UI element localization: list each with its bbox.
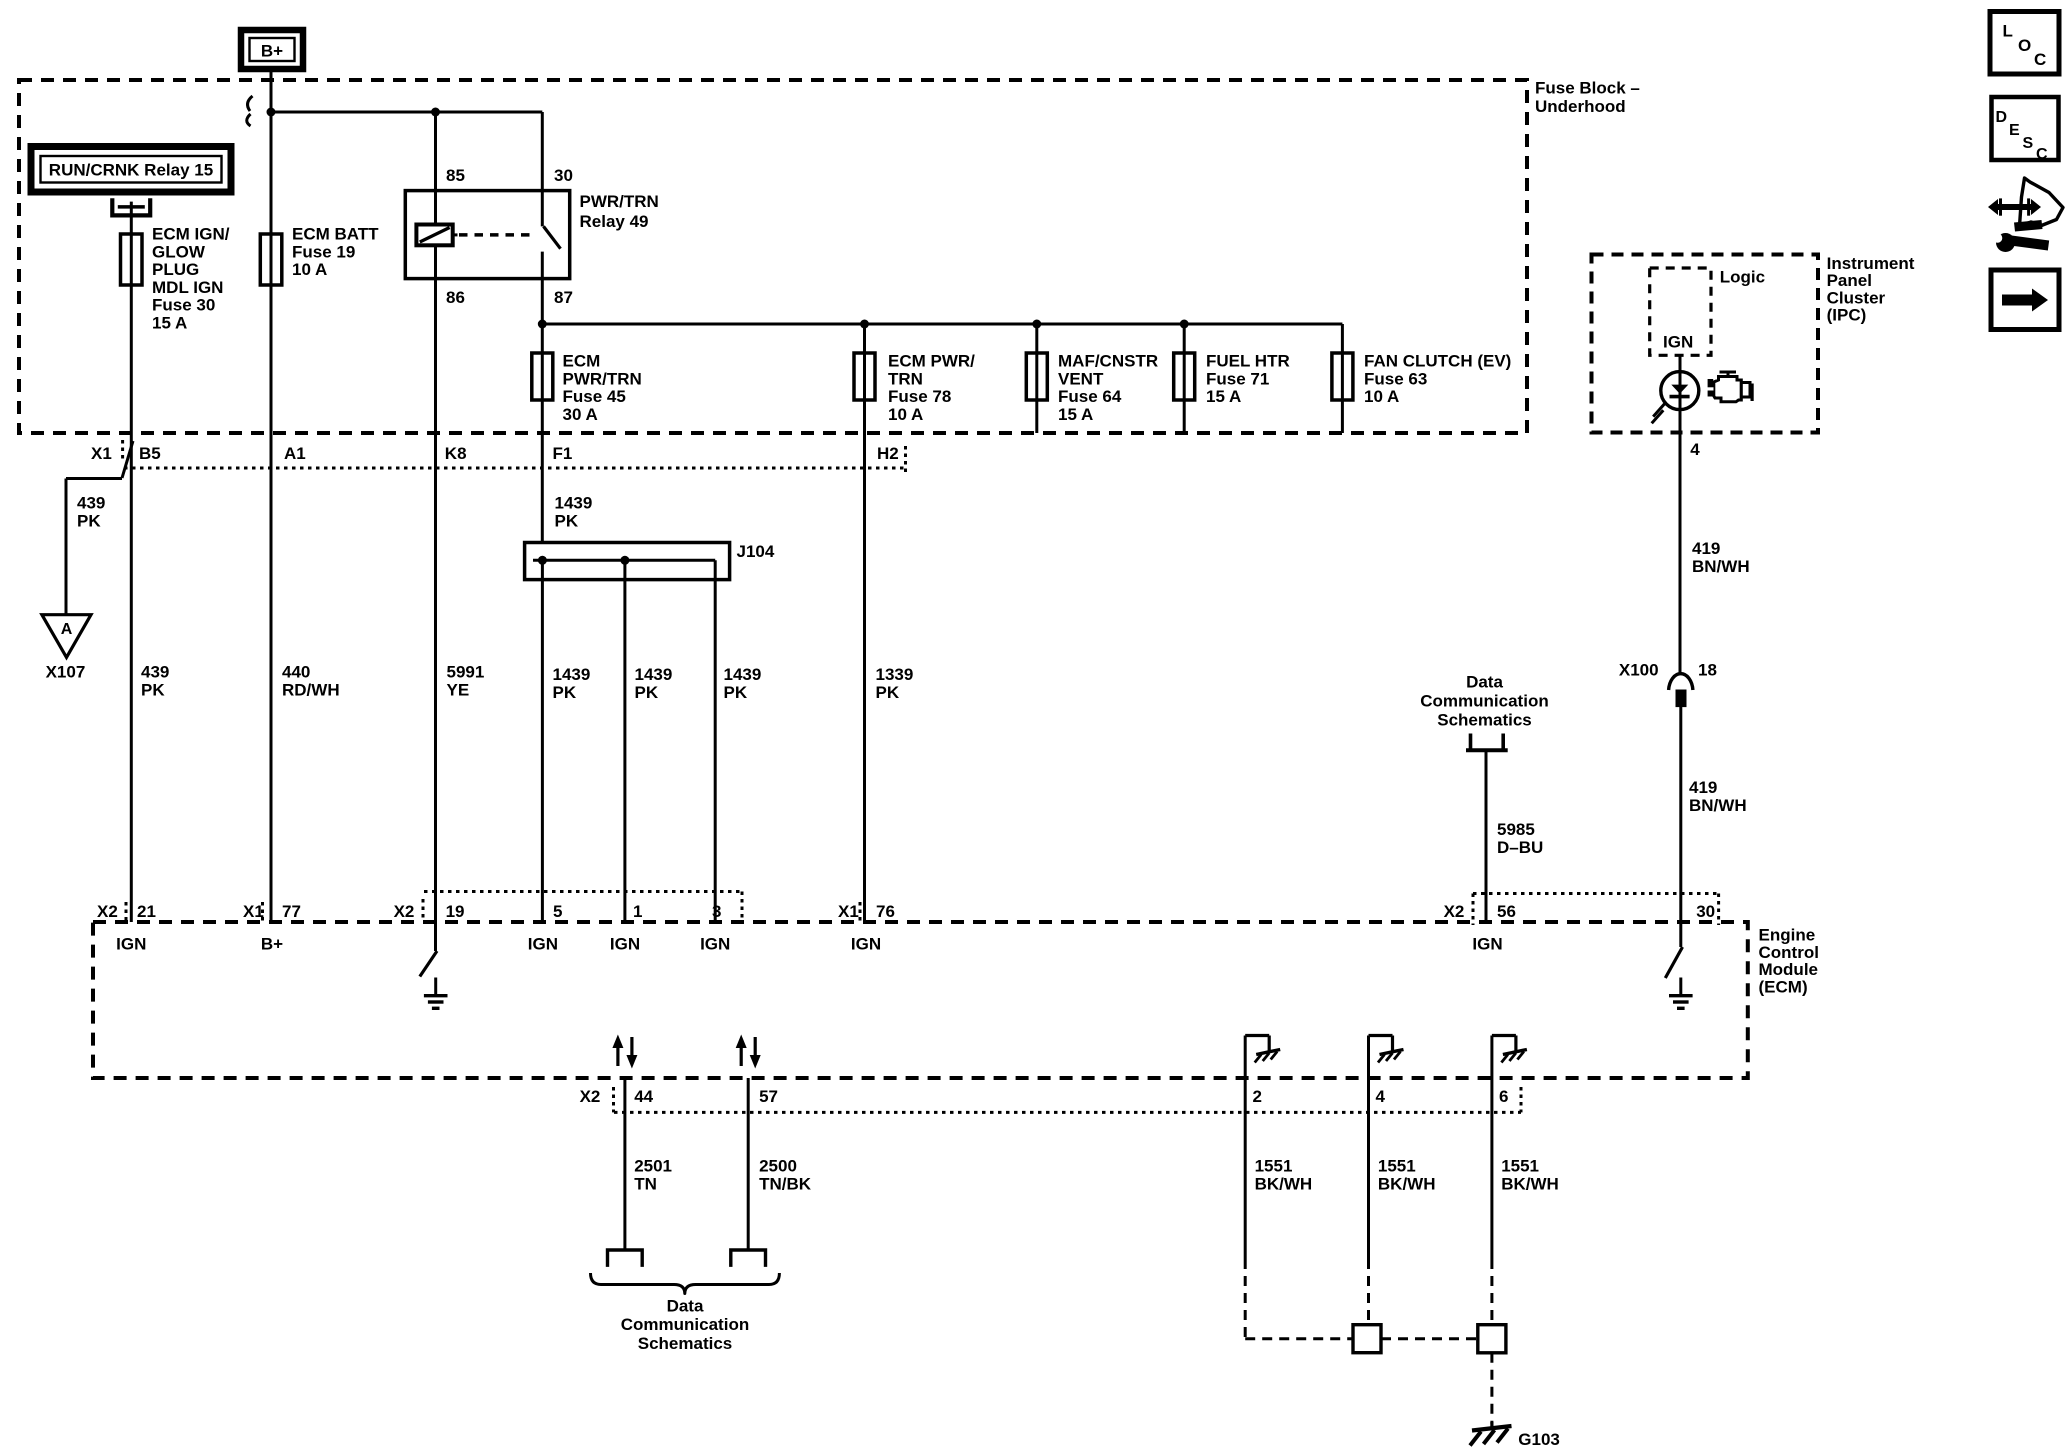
- tick after pin3: [741, 892, 744, 925]
- svg-text:IGN: IGN: [610, 935, 640, 954]
- svg-text:D–BU: D–BU: [1497, 838, 1543, 857]
- svg-text:BK/WH: BK/WH: [1501, 1174, 1559, 1193]
- svg-text:MDL IGN: MDL IGN: [152, 278, 223, 297]
- terminator cap at wire 2501: [608, 1250, 643, 1267]
- svg-text:5: 5: [553, 902, 562, 921]
- wire 1439 PK fuse45 to J104: [541, 324, 544, 543]
- svg-text:Fuse 71: Fuse 71: [1206, 369, 1269, 388]
- svg-text:PK: PK: [555, 511, 579, 530]
- svg-text:Fuse 78: Fuse 78: [888, 387, 951, 406]
- wire branch to X107: diagonal: [122, 441, 133, 478]
- wire ECM pin57 / 2500 TN_BK: [747, 1078, 750, 1250]
- wire fuse63 drop: [1341, 324, 1344, 433]
- LED diode triangle: [1671, 385, 1688, 394]
- dashed wire splice S2 to G103: [1490, 1353, 1493, 1424]
- tick after pin30: [1717, 894, 1720, 926]
- fuse 64 MAF/CNSTR VENT: [1026, 353, 1047, 400]
- svg-text:BK/WH: BK/WH: [1255, 1174, 1313, 1193]
- svg-text:1439: 1439: [724, 665, 762, 684]
- svg-text:10 A: 10 A: [1364, 387, 1399, 406]
- svg-text:Instrument: Instrument: [1827, 254, 1915, 273]
- svg-text:1439: 1439: [635, 665, 673, 684]
- svg-text:Fuse 64: Fuse 64: [1058, 387, 1122, 406]
- svg-text:B+: B+: [261, 935, 283, 954]
- svg-text:TN: TN: [634, 1174, 657, 1193]
- svg-text:87: 87: [554, 288, 573, 307]
- junction dot coil drop: [431, 108, 440, 117]
- svg-text:VENT: VENT: [1058, 369, 1104, 388]
- tick at X2 44: [612, 1087, 615, 1112]
- svg-text:FAN CLUTCH (EV): FAN CLUTCH (EV): [1364, 352, 1511, 371]
- svg-text:Logic: Logic: [1720, 268, 1765, 287]
- svg-text:85: 85: [446, 166, 465, 185]
- svg-text:MAF/CNSTR: MAF/CNSTR: [1058, 352, 1158, 371]
- svg-text:77: 77: [282, 902, 301, 921]
- svg-text:Fuse 63: Fuse 63: [1364, 369, 1427, 388]
- svg-text:6: 6: [1499, 1087, 1508, 1106]
- wire 5985 D-BU: [1485, 750, 1488, 922]
- svg-text:X2: X2: [97, 902, 118, 921]
- wire J104 out pin5: [541, 560, 544, 922]
- svg-text:44: 44: [634, 1087, 653, 1106]
- instrument panel cluster IPC dashed box: [1592, 255, 1819, 433]
- tick at X2 19: [422, 899, 425, 919]
- chassis ground hook at ECM pin 2: [1245, 1034, 1269, 1037]
- svg-text:BN/WH: BN/WH: [1692, 557, 1750, 576]
- svg-text:1551: 1551: [1378, 1157, 1416, 1176]
- relay 49 switch blade: [544, 226, 561, 248]
- svg-text:F1: F1: [553, 444, 573, 463]
- svg-text:1551: 1551: [1501, 1157, 1539, 1176]
- ECM pin19 switch blade to ground: [420, 951, 437, 977]
- svg-text:Control: Control: [1759, 943, 1819, 962]
- svg-text:Schematics: Schematics: [638, 1334, 733, 1353]
- bidirectional data arrows at ECM pin 57: [740, 1046, 743, 1066]
- svg-text:86: 86: [446, 288, 465, 307]
- svg-text:76: 76: [876, 902, 895, 921]
- check engine icon: [1720, 371, 1737, 374]
- svg-text:YE: YE: [447, 680, 470, 699]
- wire branch to X107: vertical: [65, 479, 68, 615]
- svg-text:Relay 49: Relay 49: [580, 212, 649, 231]
- svg-text:E: E: [2009, 122, 2020, 139]
- svg-text:BN/WH: BN/WH: [1689, 796, 1747, 815]
- splice S2: [1478, 1325, 1506, 1353]
- tick at X1 76: [859, 902, 862, 921]
- svg-text:PK: PK: [635, 683, 659, 702]
- svg-text:21: 21: [137, 902, 156, 921]
- forward arrow icon box: [1991, 270, 2059, 330]
- ECM bottom connector dotted row: [614, 1111, 1521, 1114]
- connector X1 dotted row fuse block: [124, 467, 905, 470]
- svg-text:Data: Data: [667, 1297, 704, 1316]
- fuse 78 ECM PWR/TRN: [854, 353, 875, 400]
- svg-text:A: A: [61, 621, 73, 638]
- svg-text:X2: X2: [1444, 902, 1465, 921]
- tick after pin6: [1520, 1087, 1523, 1112]
- RUN/CRNK relay output bracket symbol: [112, 198, 150, 215]
- wire ECM pin2 / 1551 BK_WH solid part: [1244, 1036, 1247, 1260]
- B+ tap curl symbol: [248, 96, 253, 111]
- relay 49 actuator dashed link: [459, 233, 536, 237]
- fuse 19 ECM BATT: [260, 234, 282, 285]
- svg-text:X2: X2: [580, 1087, 601, 1106]
- fuse 30 ECM IGN GLOW PLUG MDL IGN: [121, 234, 143, 285]
- svg-text:C: C: [2034, 50, 2046, 69]
- svg-text:ECM PWR/: ECM PWR/: [888, 352, 975, 371]
- junction dot fuse71: [1180, 320, 1189, 329]
- svg-text:4: 4: [1690, 440, 1700, 459]
- svg-text:1: 1: [633, 902, 642, 921]
- svg-text:1439: 1439: [555, 494, 593, 513]
- schematic navigation hand icon: [2020, 178, 2064, 226]
- wire fuse71 drop: [1183, 324, 1186, 433]
- svg-text:Cluster: Cluster: [1827, 288, 1886, 307]
- wire RUN CRNK fuse30 / 439 PK: [130, 202, 133, 922]
- svg-text:18: 18: [1698, 661, 1717, 680]
- wire J104 out pin3: [714, 560, 717, 922]
- svg-text:TRN: TRN: [888, 369, 923, 388]
- engine control module ECM dashed box: [93, 922, 1748, 1078]
- wire pin30 into relay: [541, 112, 544, 226]
- svg-text:PK: PK: [876, 683, 900, 702]
- svg-text:X107: X107: [46, 663, 86, 682]
- svg-text:Data: Data: [1466, 673, 1503, 692]
- svg-text:PK: PK: [724, 683, 748, 702]
- tick at X2 21: [125, 902, 128, 921]
- chassis ground hook at ECM pin 6: [1492, 1034, 1516, 1037]
- svg-text:Fuse Block –: Fuse Block –: [1535, 79, 1640, 98]
- svg-text:J104: J104: [737, 542, 775, 561]
- svg-text:2: 2: [1253, 1087, 1262, 1106]
- wire relay coil pin85 drop: [434, 112, 437, 225]
- svg-text:X1: X1: [91, 444, 112, 463]
- wire ECM pin6 / 1551 BK_WH solid part: [1490, 1036, 1493, 1260]
- dashed wire pin2 down: [1244, 1259, 1247, 1339]
- svg-text:O: O: [2018, 36, 2031, 55]
- svg-text:30: 30: [1696, 902, 1715, 921]
- IPC IGN indicator LED circle: [1661, 372, 1699, 410]
- svg-text:419: 419: [1692, 539, 1720, 558]
- svg-text:5991: 5991: [447, 663, 485, 682]
- fuse 71 FUEL HTR: [1174, 353, 1195, 400]
- svg-text:2500: 2500: [759, 1157, 797, 1176]
- wire 419 BN_WH X100 to ECM pin30: [1679, 707, 1682, 947]
- svg-text:IGN: IGN: [528, 935, 558, 954]
- svg-text:IGN: IGN: [116, 935, 146, 954]
- svg-text:IGN: IGN: [700, 935, 730, 954]
- svg-text:A1: A1: [284, 444, 306, 463]
- svg-text:15 A: 15 A: [1206, 387, 1241, 406]
- svg-text:Communication: Communication: [621, 1315, 749, 1334]
- DESC icon box: [1992, 97, 2059, 160]
- svg-text:H2: H2: [877, 444, 899, 463]
- svg-text:419: 419: [1689, 778, 1717, 797]
- logic block dashed box: [1650, 268, 1711, 355]
- svg-text:ECM: ECM: [563, 352, 601, 371]
- svg-text:3: 3: [712, 902, 721, 921]
- junction dot J104 pin1: [620, 556, 629, 565]
- fuse block underhood dashed box: [19, 80, 1527, 433]
- wire 5991 YE pin86 to ECM pin19: [434, 245, 437, 951]
- svg-text:IGN: IGN: [851, 935, 881, 954]
- junction dot fuse64: [1032, 320, 1041, 329]
- svg-text:PK: PK: [77, 511, 101, 530]
- svg-text:PLUG: PLUG: [152, 260, 199, 279]
- svg-text:ECM BATT: ECM BATT: [292, 225, 379, 244]
- svg-text:IGN: IGN: [1663, 333, 1693, 352]
- connector X1 tick at B5: [121, 440, 124, 462]
- svg-text:1339: 1339: [876, 665, 914, 684]
- wire B+ vertical / 440 RD_WH: [270, 69, 273, 922]
- svg-text:30 A: 30 A: [563, 405, 598, 424]
- svg-text:S: S: [2023, 135, 2034, 152]
- svg-text:G103: G103: [1518, 1430, 1560, 1449]
- wire ECM pin4 / 1551 BK_WH solid part: [1367, 1036, 1370, 1260]
- svg-text:10 A: 10 A: [292, 260, 327, 279]
- dashed wire pin2 to splice S1: [1245, 1337, 1353, 1340]
- svg-text:Panel: Panel: [1827, 271, 1872, 290]
- svg-text:TN/BK: TN/BK: [759, 1174, 812, 1193]
- svg-text:X1: X1: [243, 902, 264, 921]
- svg-text:57: 57: [759, 1087, 778, 1106]
- svg-text:X100: X100: [1619, 661, 1659, 680]
- svg-text:Fuse 30: Fuse 30: [152, 296, 215, 315]
- splice pack J104: [525, 543, 730, 580]
- svg-text:PWR/TRN: PWR/TRN: [563, 369, 642, 388]
- svg-text:15 A: 15 A: [152, 314, 187, 333]
- svg-text:30: 30: [554, 166, 573, 185]
- svg-text:K8: K8: [445, 444, 467, 463]
- svg-text:B+: B+: [261, 42, 283, 61]
- svg-text:439: 439: [77, 494, 105, 513]
- wire J104 out pin1: [623, 560, 626, 922]
- fuse 63 FAN CLUTCH: [1332, 353, 1353, 400]
- svg-text:1551: 1551: [1255, 1157, 1293, 1176]
- svg-text:440: 440: [282, 663, 310, 682]
- svg-text:ECM IGN/: ECM IGN/: [152, 225, 230, 244]
- svg-text:FUEL HTR: FUEL HTR: [1206, 352, 1290, 371]
- svg-text:B5: B5: [139, 444, 161, 463]
- ground symbol at pin30: [1679, 978, 1682, 996]
- svg-text:4: 4: [1376, 1087, 1386, 1106]
- svg-text:PWR/TRN: PWR/TRN: [580, 192, 659, 211]
- junction dot fuse78: [860, 320, 869, 329]
- LED cathode bar: [1670, 395, 1690, 399]
- junction dot pin87 bus: [538, 320, 547, 329]
- wire 1339 PK fuse78 to ECM pin76: [863, 324, 866, 922]
- ECM top connector dotted row right segment: [1473, 892, 1719, 895]
- fuse feed bus horizontal: [542, 323, 1342, 326]
- B+ power label box: [241, 30, 303, 69]
- junction dot J104 in: [538, 556, 547, 565]
- inline connector X100 pin18: [1669, 674, 1693, 690]
- svg-text:56: 56: [1497, 902, 1516, 921]
- svg-text:L: L: [2003, 22, 2013, 41]
- svg-text:Underhood: Underhood: [1535, 97, 1626, 116]
- fuse 45 ECM PWR/TRN: [532, 353, 553, 400]
- svg-text:Schematics: Schematics: [1437, 710, 1532, 729]
- data link bracket above 5985 wire: [1471, 734, 1504, 749]
- svg-text:X1: X1: [838, 902, 859, 921]
- svg-text:1439: 1439: [553, 665, 591, 684]
- svg-text:Communication: Communication: [1420, 691, 1548, 710]
- PWR/TRN Relay 49 box: [405, 191, 569, 279]
- svg-text:RUN/CRNK Relay 15: RUN/CRNK Relay 15: [49, 161, 213, 180]
- LOC icon box: [1990, 12, 2059, 75]
- svg-text:(IPC): (IPC): [1827, 306, 1867, 325]
- ECM top connector dotted row left segment: [424, 890, 742, 893]
- relay 49 coil: [416, 225, 452, 246]
- svg-text:IGN: IGN: [1472, 935, 1502, 954]
- LED slashes: [1653, 404, 1665, 417]
- bidirectional data arrows at ECM pin 44: [616, 1046, 619, 1066]
- RUN/CRNK Relay 15 label box: [31, 147, 231, 193]
- ground symbol at pin19: [434, 978, 437, 996]
- svg-text:19: 19: [446, 902, 465, 921]
- off-page triangle A / X107: [42, 615, 91, 658]
- svg-text:PK: PK: [553, 683, 577, 702]
- svg-text:Fuse 19: Fuse 19: [292, 242, 355, 261]
- svg-text:Engine: Engine: [1759, 926, 1816, 945]
- svg-text:BK/WH: BK/WH: [1378, 1174, 1436, 1193]
- chassis ground hook at ECM pin 4: [1369, 1034, 1393, 1037]
- curly brace under data wires: [591, 1273, 780, 1294]
- terminator cap at wire 2500: [731, 1250, 766, 1267]
- svg-text:Module: Module: [1759, 960, 1819, 979]
- dashed wire pin6 down to splice S2: [1490, 1259, 1493, 1325]
- svg-text:439: 439: [141, 663, 169, 682]
- svg-text:Fuse 45: Fuse 45: [563, 387, 626, 406]
- svg-text:10 A: 10 A: [888, 405, 923, 424]
- svg-text:5985: 5985: [1497, 820, 1535, 839]
- svg-text:2501: 2501: [634, 1157, 672, 1176]
- tick at X1 77: [261, 902, 264, 921]
- tick at X2 56: [1472, 894, 1475, 926]
- svg-text:GLOW: GLOW: [152, 242, 206, 261]
- wire pin87 to bus: [541, 252, 544, 324]
- wire branch to X107: horizontal: [66, 477, 122, 480]
- wire ECM pin44 / 2501 TN: [623, 1078, 626, 1250]
- splice S1: [1353, 1325, 1381, 1353]
- wire IGN logic to LED to pin4 to X100: [1679, 355, 1682, 673]
- svg-text:RD/WH: RD/WH: [282, 680, 340, 699]
- svg-text:C: C: [2036, 146, 2048, 163]
- svg-text:PK: PK: [141, 680, 165, 699]
- svg-text:D: D: [1996, 109, 2008, 126]
- dashed wire splice S1 to splice S2: [1381, 1337, 1478, 1340]
- dashed wire pin4 down to splice S1: [1367, 1259, 1370, 1325]
- wire horizontal bus from B+ to relay pin30: [271, 111, 542, 114]
- svg-text:X2: X2: [394, 902, 415, 921]
- junction dot B+: [267, 108, 276, 117]
- svg-text:(ECM): (ECM): [1759, 977, 1808, 996]
- svg-text:15 A: 15 A: [1058, 405, 1093, 424]
- connector tick after H2: [904, 446, 907, 473]
- ECM pin30 switch blade to ground: [1665, 947, 1682, 978]
- ground G103 symbol: [1490, 1422, 1493, 1429]
- wire fuse64 drop: [1035, 324, 1038, 433]
